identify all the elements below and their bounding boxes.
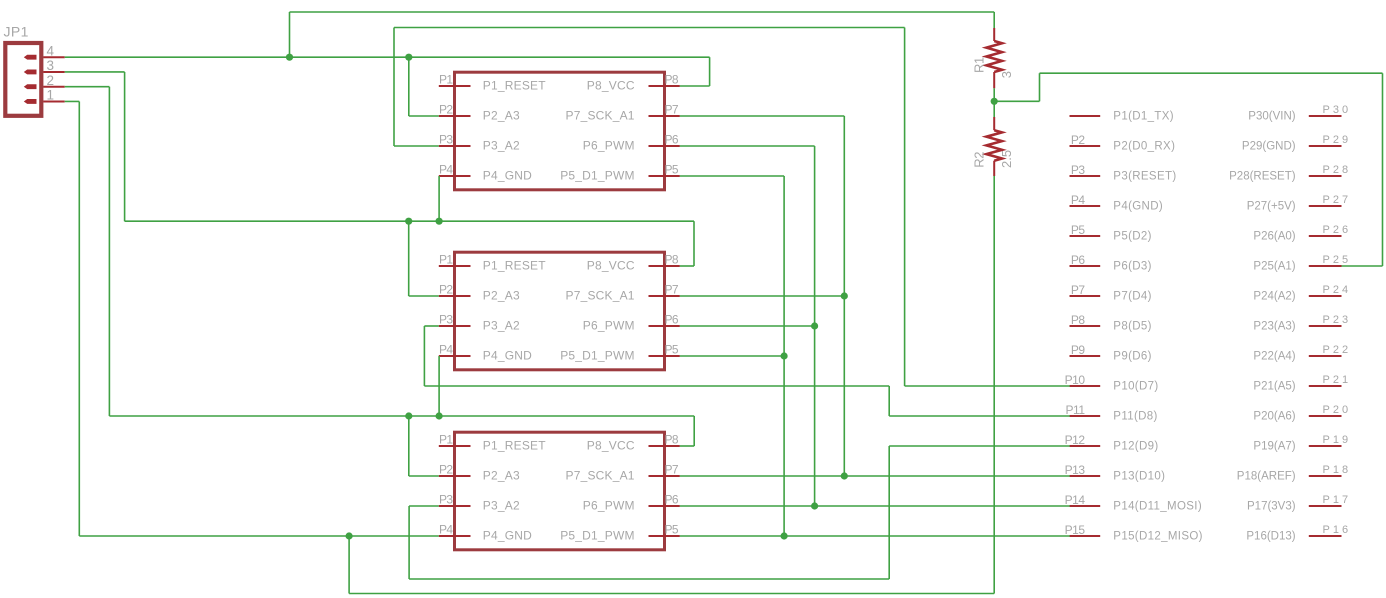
svg-text:P30: P30	[1323, 104, 1352, 116]
svg-text:P5_D1_PWM: P5_D1_PWM	[560, 169, 635, 183]
svg-text:P26: P26	[1323, 224, 1352, 236]
chip U4 left pin P10(D7) stub, number, name	[1065, 373, 1159, 393]
svg-text:P5: P5	[665, 343, 679, 357]
chip U4 right pin P16(D13) stub, number, name	[1246, 524, 1351, 542]
svg-text:P19: P19	[1323, 434, 1352, 446]
resistor R1 zigzag	[986, 41, 1002, 72]
chip U4 right pin P17(3V3) stub, number, name	[1247, 494, 1351, 512]
svg-text:1: 1	[47, 88, 55, 103]
svg-text:P4: P4	[439, 163, 453, 177]
svg-text:P3(RESET): P3(RESET)	[1113, 170, 1176, 182]
svg-text:P22(A4): P22(A4)	[1253, 350, 1295, 362]
svg-text:P13: P13	[1065, 463, 1086, 477]
resistor R2 zigzag	[986, 130, 1002, 161]
IC U3 left pin names	[483, 439, 546, 543]
svg-text:P6_PWM: P6_PWM	[583, 319, 635, 333]
junction on wire net H	[991, 98, 998, 105]
svg-text:P23: P23	[1323, 314, 1352, 326]
junction on wire net P6	[811, 322, 818, 329]
IC U3 right pin names	[560, 439, 635, 543]
svg-text:P1_RESET: P1_RESET	[483, 79, 546, 93]
junction on wire net P5	[781, 352, 788, 359]
resistor R1 leads	[993, 28, 995, 41]
wire net B: U1.P3 - U4.P10	[394, 28, 1070, 387]
svg-text:P7_SCK_A1: P7_SCK_A1	[566, 289, 635, 303]
chip U4 left pin P3(RESET) stub, number, name	[1070, 163, 1177, 183]
svg-text:P13(D10): P13(D10)	[1113, 470, 1165, 482]
svg-text:P14(D11_MOSI): P14(D11_MOSI)	[1113, 500, 1202, 512]
svg-text:P21(A5): P21(A5)	[1253, 380, 1295, 392]
svg-text:P4: P4	[439, 523, 453, 537]
IC U3 right pin stubs and pin numbers P8-P5	[649, 433, 680, 537]
JP1 pins 4,3,2,1 stubs and numbers	[43, 43, 64, 102]
svg-text:P25(A1): P25(A1)	[1253, 260, 1295, 272]
op-amp-style IC U3 body	[455, 432, 665, 550]
svg-text:P16: P16	[1323, 524, 1352, 536]
chip U4 left pin P15(D12_MISO) stub, number, name	[1065, 523, 1203, 543]
svg-text:3: 3	[47, 58, 55, 73]
svg-text:P5_D1_PWM: P5_D1_PWM	[560, 349, 635, 363]
chip U4 left pin P14(D11_MOSI) stub, number, name	[1065, 493, 1202, 513]
svg-text:P1: P1	[439, 73, 453, 87]
connector JP1 body	[5, 43, 41, 116]
svg-text:P16(D13): P16(D13)	[1246, 530, 1295, 542]
svg-text:P24: P24	[1323, 284, 1352, 296]
svg-text:4: 4	[47, 43, 55, 58]
junction on wire net C	[405, 218, 412, 225]
svg-text:P2: P2	[1071, 133, 1086, 147]
svg-text:P7: P7	[665, 283, 679, 297]
IC U2 left pin stubs and pin numbers P1-P4	[439, 253, 471, 357]
svg-text:P4_GND: P4_GND	[483, 169, 532, 183]
svg-text:P28: P28	[1323, 164, 1352, 176]
svg-text:P30(VIN): P30(VIN)	[1248, 110, 1295, 122]
svg-text:P10: P10	[1065, 373, 1086, 387]
chip U4 left pin P2(D0_RX) stub, number, name	[1070, 133, 1176, 153]
svg-text:P2_A3: P2_A3	[483, 469, 520, 483]
junction on wire net C	[436, 218, 443, 225]
IC U2 right pin names	[560, 259, 635, 363]
svg-text:P4: P4	[1071, 193, 1086, 207]
wire net G: U3.P3 - U4.P12	[409, 446, 1070, 579]
wire net P7: U1.P7 - U2.P7 - U3.P7 - U4.P13	[680, 116, 1070, 476]
chip U4 right pin P18(AREF) stub, number, name	[1237, 464, 1351, 482]
svg-text:P8: P8	[665, 433, 679, 447]
svg-text:P1: P1	[439, 253, 453, 267]
svg-text:P2_A3: P2_A3	[483, 109, 520, 123]
IC U1 left pin stubs and pin numbers P1-P4	[439, 73, 471, 177]
resistor R2 leads	[993, 117, 995, 130]
op-amp-style IC U2 body	[455, 252, 665, 370]
svg-text:P26(A0): P26(A0)	[1253, 230, 1295, 242]
svg-text:P20(A6): P20(A6)	[1253, 410, 1295, 422]
chip U4 right pin P22(A4) stub, number, name	[1253, 344, 1351, 362]
wire net E: JP1.1 - U3.P4 - R2	[65, 101, 995, 593]
chip U4 right pin P29(GND) stub, number, name	[1242, 134, 1351, 152]
svg-text:P4_GND: P4_GND	[483, 529, 532, 543]
chip U4 left pin P6(D3) stub, number, name	[1070, 253, 1152, 273]
junction on wire net P5	[781, 532, 788, 539]
svg-text:P17: P17	[1323, 494, 1352, 506]
chip U4 left pin P7(D4) stub, number, name	[1070, 283, 1152, 303]
chip U4 left pin P13(D10) stub, number, name	[1065, 463, 1166, 483]
svg-text:P8: P8	[1071, 313, 1086, 327]
svg-text:P15: P15	[1065, 523, 1086, 537]
IC U2 left pin names	[483, 259, 546, 363]
chip U4 right pin P26(A0) stub, number, name	[1253, 224, 1351, 242]
svg-text:P11(D8): P11(D8)	[1113, 410, 1157, 422]
svg-text:P29(GND): P29(GND)	[1242, 140, 1296, 152]
svg-text:P1_RESET: P1_RESET	[483, 259, 546, 273]
svg-text:P3_A2: P3_A2	[483, 499, 520, 513]
op-amp-style IC U1 body	[455, 72, 665, 190]
svg-text:R2: R2	[972, 152, 987, 168]
svg-text:P2: P2	[439, 103, 453, 117]
chip U4 right pin P19(A7) stub, number, name	[1253, 434, 1351, 452]
svg-text:P4(GND): P4(GND)	[1113, 200, 1163, 212]
chip U4 left pin P4(GND) stub, number, name	[1070, 193, 1164, 213]
svg-text:JP1: JP1	[4, 24, 29, 40]
svg-text:P18(AREF): P18(AREF)	[1237, 470, 1296, 482]
svg-text:2: 2	[47, 73, 55, 88]
svg-text:P19(A7): P19(A7)	[1253, 440, 1295, 452]
svg-text:P17(3V3): P17(3V3)	[1247, 500, 1296, 512]
chip U4 right pin P25(A1) stub, number, name	[1253, 254, 1351, 272]
svg-text:P5(D2): P5(D2)	[1113, 230, 1152, 242]
svg-text:P7_SCK_A1: P7_SCK_A1	[566, 469, 635, 483]
svg-text:R1: R1	[972, 57, 987, 73]
junction on wire net P6	[811, 502, 818, 509]
svg-text:P7: P7	[1071, 283, 1086, 297]
svg-text:P5: P5	[1071, 223, 1086, 237]
svg-text:P12: P12	[1065, 433, 1086, 447]
wire net H: R1-R2 - U4.P25	[994, 73, 1382, 266]
svg-text:P9: P9	[1071, 343, 1086, 357]
IC U1 left pin names	[483, 79, 546, 183]
svg-text:P3: P3	[439, 493, 453, 507]
wire net F: U2.P3 - U4.P11	[424, 326, 1069, 416]
svg-text:P8_VCC: P8_VCC	[587, 79, 635, 93]
chip U4 left pin P1(D1_TX) stub, number, name	[1070, 110, 1174, 122]
svg-text:P3_A2: P3_A2	[483, 139, 520, 153]
wire net P5: U1.P5 - U2.P5 - U3.P5 - U4.P15	[680, 176, 1070, 536]
chip U4 right pin P28(RESET) stub, number, name	[1229, 164, 1351, 182]
svg-text:P6: P6	[1071, 253, 1086, 267]
svg-text:P3: P3	[439, 133, 453, 147]
svg-text:P9(D6): P9(D6)	[1113, 350, 1152, 362]
svg-text:P6: P6	[665, 313, 679, 327]
svg-text:P1: P1	[439, 433, 453, 447]
wire net D: JP1.2 - U2.P4 - U3.P2 - U3.P8	[65, 87, 695, 476]
svg-text:P7: P7	[665, 103, 679, 117]
svg-text:P11: P11	[1066, 403, 1086, 417]
svg-text:P18: P18	[1323, 464, 1352, 476]
svg-text:P7_SCK_A1: P7_SCK_A1	[566, 109, 635, 123]
junction on wire net A	[405, 54, 412, 61]
chip U4 right pin P20(A6) stub, number, name	[1253, 404, 1351, 422]
svg-text:P5_D1_PWM: P5_D1_PWM	[560, 529, 635, 543]
wire net C: JP1.3 - U1.P4 - U2.P2 - U2.P8	[65, 72, 694, 296]
chip U4 left pin P9(D6) stub, number, name	[1070, 343, 1152, 363]
svg-text:P15(D12_MISO): P15(D12_MISO)	[1113, 530, 1203, 542]
svg-text:P2(D0_RX): P2(D0_RX)	[1113, 140, 1175, 152]
wire net P6: U1.P6 - U2.P6 - U3.P6 - U4.P14	[680, 146, 1070, 506]
svg-text:P7: P7	[665, 463, 679, 477]
svg-text:P4: P4	[439, 343, 453, 357]
svg-text:P5: P5	[665, 523, 679, 537]
svg-text:P24(A2): P24(A2)	[1253, 290, 1295, 302]
junction on wire net D	[405, 412, 412, 419]
svg-text:P5: P5	[665, 163, 679, 177]
svg-text:3: 3	[999, 71, 1014, 78]
svg-text:P8_VCC: P8_VCC	[587, 439, 635, 453]
svg-text:P12(D9): P12(D9)	[1113, 440, 1158, 452]
svg-text:P1(D1_TX): P1(D1_TX)	[1113, 110, 1174, 122]
junction on wire net P7	[841, 472, 848, 479]
svg-text:P3: P3	[1071, 163, 1086, 177]
IC U3 left pin stubs and pin numbers P1-P4	[439, 433, 471, 537]
svg-text:P6: P6	[665, 133, 679, 147]
junction on wire net D	[436, 412, 443, 419]
svg-text:P23(A3): P23(A3)	[1253, 320, 1295, 332]
junction on wire net A	[286, 54, 293, 61]
chip U4 right pin P24(A2) stub, number, name	[1253, 284, 1351, 302]
chip U4 right pin P23(A3) stub, number, name	[1253, 314, 1351, 332]
svg-text:P1_RESET: P1_RESET	[483, 439, 546, 453]
junction on wire net E	[346, 532, 353, 539]
IC U1 right pin stubs and pin numbers P8-P5	[649, 73, 680, 177]
svg-text:P28(RESET): P28(RESET)	[1229, 170, 1296, 182]
svg-text:P27: P27	[1323, 194, 1352, 206]
svg-text:P29: P29	[1323, 134, 1352, 146]
svg-text:P6: P6	[665, 493, 679, 507]
svg-text:P6_PWM: P6_PWM	[583, 499, 635, 513]
IC U2 right pin stubs and pin numbers P8-P5	[649, 253, 680, 357]
svg-text:P22: P22	[1323, 344, 1352, 356]
svg-text:P4_GND: P4_GND	[483, 349, 532, 363]
svg-text:P2_A3: P2_A3	[483, 289, 520, 303]
svg-text:P20: P20	[1323, 404, 1352, 416]
chip U4 right pin P30(VIN) stub, number, name	[1248, 104, 1351, 122]
svg-text:P8: P8	[665, 73, 679, 87]
svg-text:P8_VCC: P8_VCC	[587, 259, 635, 273]
svg-text:P2: P2	[439, 283, 453, 297]
chip U4 left pin P11(D8) stub, number, name	[1066, 403, 1158, 423]
chip U4 left pin P12(D9) stub, number, name	[1065, 433, 1159, 453]
chip U4 right pin P27(+5V) stub, number, name	[1247, 194, 1351, 212]
chip U4 left pin P5(D2) stub, number, name	[1070, 223, 1152, 243]
wire net A: JP1.4 - U1.P2 - U1.P8 - R1	[65, 12, 995, 116]
svg-text:P3: P3	[439, 313, 453, 327]
svg-text:P8: P8	[665, 253, 679, 267]
IC U1 right pin names	[560, 79, 635, 183]
svg-text:P14: P14	[1065, 493, 1086, 507]
svg-text:P8(D5): P8(D5)	[1113, 320, 1152, 332]
svg-text:P7(D4): P7(D4)	[1113, 290, 1152, 302]
svg-text:P6(D3): P6(D3)	[1113, 260, 1152, 272]
junction on wire net P7	[841, 292, 848, 299]
chip U4 left pin P8(D5) stub, number, name	[1070, 313, 1152, 333]
chip U4 right pin P21(A5) stub, number, name	[1253, 374, 1351, 392]
svg-text:P3_A2: P3_A2	[483, 319, 520, 333]
svg-text:2.5: 2.5	[999, 150, 1014, 168]
svg-text:P25: P25	[1323, 254, 1352, 266]
svg-text:P27(+5V): P27(+5V)	[1247, 200, 1296, 212]
svg-text:P21: P21	[1323, 374, 1352, 386]
svg-text:P6_PWM: P6_PWM	[583, 139, 635, 153]
svg-text:P2: P2	[439, 463, 453, 477]
svg-text:P10(D7): P10(D7)	[1113, 380, 1158, 392]
